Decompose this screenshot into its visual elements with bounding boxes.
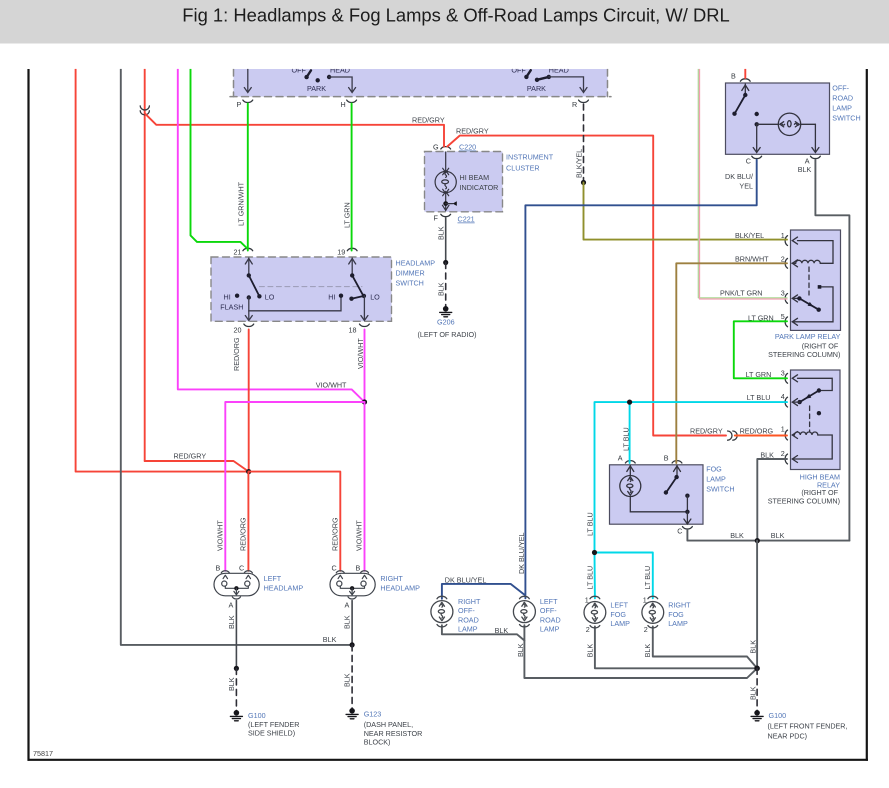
- svg-text:FOG: FOG: [610, 610, 626, 619]
- svg-text:BLK: BLK: [227, 677, 236, 691]
- pin B fog switch: [664, 454, 682, 464]
- headlamp switch section 1 OFF/PARK/HEAD: [244, 65, 355, 93]
- junction LT BLU at relay feed: [627, 400, 632, 405]
- label high beam relay: [768, 473, 840, 506]
- label hi beam indicator: [460, 173, 499, 192]
- pin G: [433, 143, 451, 152]
- ground G123 dash panel: [346, 708, 358, 719]
- svg-text:1: 1: [585, 595, 589, 604]
- svg-text:BLK: BLK: [798, 165, 812, 174]
- wire BLK left off-road lamp bottom: [523, 625, 525, 640]
- wire VIO/WHT to right headlamp pin B: [364, 402, 366, 571]
- wire BLK dashed to G100 left: [235, 668, 237, 710]
- fog lamp switch internals: [620, 466, 691, 525]
- svg-text:CLUSTER: CLUSTER: [506, 164, 540, 173]
- fog lamp switch box: [610, 465, 704, 524]
- pin A off-road switch: [805, 156, 821, 165]
- svg-text:G100: G100: [248, 711, 266, 720]
- off-road lamp switch internals: [732, 84, 819, 153]
- svg-text:BLK: BLK: [437, 226, 446, 240]
- svg-text:B: B: [356, 564, 361, 573]
- svg-text:RIGHT: RIGHT: [458, 597, 481, 606]
- svg-text:R: R: [572, 100, 577, 109]
- junction BLK grounds: [755, 538, 760, 543]
- svg-text:LEFT: LEFT: [610, 601, 628, 610]
- wire LT BLU to left fog lamp: [594, 553, 596, 599]
- svg-text:2: 2: [586, 625, 590, 634]
- junction RED/ORG distribution: [246, 469, 251, 474]
- svg-text:DK BLU/: DK BLU/: [725, 172, 753, 181]
- svg-text:B: B: [731, 72, 736, 81]
- svg-text:2: 2: [781, 255, 785, 264]
- dimmer switch right half HI/LO: [328, 258, 380, 321]
- pin C fog switch: [677, 527, 692, 536]
- svg-text:DK BLU/YEL: DK BLU/YEL: [445, 575, 487, 584]
- wire LT BLU high beam relay pin 4 net: [595, 402, 788, 552]
- svg-text:BLK: BLK: [343, 673, 352, 687]
- wire DK BLU/YEL off-road switch pin C to off-road lamps: [525, 160, 756, 599]
- wire RED/GRY from pin G to high beam relay: [447, 136, 726, 436]
- wire BLK/YEL dashed from pin R: [583, 104, 585, 183]
- svg-text:A: A: [345, 601, 350, 610]
- wire VIO/WHT dimmer pin 18 down: [364, 330, 366, 403]
- wire BLK off-road switch pin A down right side: [815, 160, 849, 541]
- label instrument cluster: [506, 153, 554, 173]
- svg-text:LAMP: LAMP: [540, 625, 560, 634]
- svg-text:BLK: BLK: [516, 643, 525, 657]
- svg-text:A: A: [229, 601, 234, 610]
- hi beam indicator lamp U-cluster: [435, 152, 457, 211]
- svg-text:FOG: FOG: [706, 465, 722, 474]
- instrument cluster box (dashed): [425, 152, 503, 212]
- wire LT GRN/WHT pin P to pin 21: [247, 104, 249, 251]
- svg-text:BLK: BLK: [495, 626, 509, 635]
- svg-text:INDICATOR: INDICATOR: [460, 183, 499, 192]
- wire RED stub to off-road switch pin B: [744, 69, 746, 78]
- svg-text:LT BLU: LT BLU: [586, 566, 595, 590]
- wire BLK right headlamp pin A to junction: [351, 601, 353, 645]
- wire BRN/WHT park relay pin 2 to fog switch pin B: [676, 263, 787, 463]
- svg-text:INSTRUMENT: INSTRUMENT: [506, 153, 554, 162]
- svg-text:LAMP: LAMP: [458, 625, 478, 634]
- svg-text:LAMP: LAMP: [832, 104, 852, 113]
- svg-text:STEERING COLUMN): STEERING COLUMN): [768, 350, 840, 359]
- left fog lamp symbol: [584, 596, 606, 628]
- svg-text:RIGHT: RIGHT: [380, 574, 403, 583]
- wire BLK fog switch pin C to junction: [687, 530, 849, 541]
- inline connector on RED wire near relay: [728, 431, 738, 440]
- svg-text:LAMP: LAMP: [668, 619, 688, 628]
- svg-text:BLK: BLK: [771, 531, 785, 540]
- wire BLK/YEL to park lamp relay pin 1: [584, 183, 788, 240]
- headlamp switch box (top, dashed): [230, 69, 611, 97]
- high beam relay pin numbers 3 4 1 2: [781, 369, 785, 459]
- svg-text:BLK: BLK: [749, 640, 758, 654]
- svg-text:OFF-: OFF-: [832, 84, 849, 93]
- svg-text:VIO/WHT: VIO/WHT: [216, 520, 225, 551]
- wire BLK dashed to G123: [351, 645, 353, 709]
- right fog lamp symbol: [642, 596, 664, 628]
- wire RED/ORG to right headlamp pin C: [249, 472, 341, 571]
- svg-text:2: 2: [644, 625, 648, 634]
- pin C off-road switch: [746, 156, 762, 165]
- svg-text:YEL: YEL: [739, 182, 753, 191]
- svg-text:BLK: BLK: [323, 635, 337, 644]
- park lamp relay internals: [792, 237, 833, 325]
- svg-text:LEFT: LEFT: [264, 574, 282, 583]
- svg-text:B: B: [216, 564, 221, 573]
- svg-text:LT GRN/WHT: LT GRN/WHT: [237, 181, 246, 226]
- label park lamp relay: [768, 332, 840, 359]
- pin R: [572, 100, 588, 109]
- wire RED/GRY left vertical feed 1: [76, 69, 246, 472]
- wire BLK left headlamp pin A to splice: [235, 601, 237, 669]
- wire LT BLU to right fog lamp: [595, 553, 653, 599]
- svg-text:BLK/YEL: BLK/YEL: [575, 149, 584, 178]
- svg-text:PNK/LT GRN: PNK/LT GRN: [720, 288, 762, 297]
- svg-text:VIO/WHT: VIO/WHT: [355, 520, 364, 551]
- svg-text:RED/ORG: RED/ORG: [331, 517, 340, 551]
- svg-text:RED/GRY: RED/GRY: [690, 426, 723, 435]
- junction BLK main ground: [754, 666, 760, 672]
- svg-text:SWITCH: SWITCH: [706, 485, 734, 494]
- svg-text:C220: C220: [459, 143, 476, 152]
- svg-text:(DASH PANEL,: (DASH PANEL,: [364, 720, 413, 729]
- park lamp relay pin numbers 1 2 3 5: [781, 231, 785, 321]
- pin 19: [337, 248, 357, 257]
- svg-text:DK BLU/YEL: DK BLU/YEL: [517, 532, 526, 574]
- right headlamp symbol: [330, 571, 375, 599]
- svg-text:NEAR PDC): NEAR PDC): [768, 732, 808, 741]
- label fog lamp switch: [706, 465, 734, 494]
- svg-text:BLK: BLK: [227, 615, 236, 629]
- svg-text:B: B: [664, 454, 669, 463]
- off-road lamp switch box: [726, 83, 830, 154]
- svg-text:BLK: BLK: [343, 615, 352, 629]
- svg-text:RIGHT: RIGHT: [668, 601, 691, 610]
- pin B off-road switch: [731, 72, 750, 82]
- svg-text:(LEFT OF RADIO): (LEFT OF RADIO): [418, 330, 477, 339]
- svg-text:C: C: [332, 564, 337, 573]
- wire DK BLU/YEL branch to right off-road lamp: [442, 584, 525, 599]
- svg-text:A: A: [618, 454, 623, 463]
- headlamp dimmer switch box (dashed): [211, 257, 392, 321]
- pin 20: [234, 324, 254, 334]
- svg-text:VIO/WHT: VIO/WHT: [316, 380, 347, 389]
- svg-text:BRN/WHT: BRN/WHT: [735, 254, 769, 263]
- svg-text:HEADLAMP: HEADLAMP: [380, 584, 420, 593]
- pin H: [341, 100, 357, 109]
- svg-text:G: G: [433, 143, 439, 152]
- svg-text:H: H: [341, 100, 346, 109]
- svg-text:5: 5: [781, 312, 785, 321]
- left off-road lamp symbol: [513, 596, 535, 627]
- junction VIO/WHT: [362, 399, 367, 404]
- svg-text:RED/GRY: RED/GRY: [174, 452, 207, 461]
- splice BLK/YEL: [581, 180, 586, 185]
- svg-text:1: 1: [781, 231, 785, 240]
- svg-text:ROAD: ROAD: [832, 94, 853, 103]
- svg-text:SIDE SHIELD): SIDE SHIELD): [248, 729, 295, 738]
- svg-text:SWITCH: SWITCH: [832, 114, 860, 123]
- svg-text:BLK/YEL: BLK/YEL: [735, 231, 764, 240]
- svg-text:BLK: BLK: [749, 686, 758, 700]
- svg-text:SWITCH: SWITCH: [396, 279, 424, 288]
- svg-text:BLK: BLK: [437, 282, 446, 296]
- high beam relay pin arcs: [785, 373, 787, 464]
- svg-text:ROAD: ROAD: [540, 615, 561, 624]
- svg-text:RED/ORG: RED/ORG: [232, 337, 241, 371]
- wire VIO/WHT to left headlamp pin B: [225, 402, 364, 571]
- svg-text:20: 20: [234, 326, 242, 335]
- svg-text:(LEFT FRONT FENDER,: (LEFT FRONT FENDER,: [768, 722, 848, 731]
- svg-text:G100: G100: [769, 711, 787, 720]
- svg-text:LT GRN: LT GRN: [343, 202, 352, 228]
- svg-text:3: 3: [781, 289, 785, 298]
- svg-text:LT BLU: LT BLU: [586, 512, 595, 536]
- svg-text:LAMP: LAMP: [706, 475, 726, 484]
- svg-text:C: C: [746, 157, 751, 166]
- svg-text:HI: HI: [328, 293, 335, 302]
- wire LT BLU branch to fog switch pin A: [629, 402, 631, 463]
- svg-text:LT BLU: LT BLU: [747, 393, 771, 402]
- pin 21: [234, 248, 253, 257]
- svg-text:F: F: [434, 214, 439, 223]
- wire BLK left vertical (right headlamp ground feed): [121, 69, 352, 645]
- splice left headlamp ground: [234, 666, 239, 671]
- wire BLK dashed to G206: [445, 263, 447, 307]
- wire BLK dashed to G100 right: [756, 668, 758, 710]
- park lamp relay box: [791, 230, 841, 330]
- splice cluster ground: [443, 260, 448, 265]
- wire RED/GRY branch to instrument cluster pin G: [145, 113, 444, 146]
- left headlamp symbol: [214, 571, 259, 599]
- svg-text:C: C: [239, 564, 244, 573]
- svg-text:BLOCK): BLOCK): [364, 737, 391, 746]
- svg-text:HI: HI: [224, 293, 231, 302]
- svg-text:1: 1: [643, 595, 647, 604]
- headlamp switch section 2 OFF/PARK/HEAD: [511, 65, 587, 93]
- svg-text:RED/ORG: RED/ORG: [740, 426, 774, 435]
- wire RED/ORG to left headlamp pin C: [247, 472, 249, 571]
- svg-text:FOG: FOG: [668, 610, 684, 619]
- ground G100 left fender: [230, 710, 242, 721]
- svg-text:21: 21: [234, 248, 242, 257]
- svg-text:DIMMER: DIMMER: [396, 269, 425, 278]
- right off-road lamp symbol: [431, 596, 453, 627]
- svg-text:3: 3: [781, 369, 785, 378]
- svg-text:BLK: BLK: [730, 531, 744, 540]
- svg-text:LO: LO: [265, 293, 275, 302]
- high beam relay box: [791, 370, 841, 470]
- svg-text:LO: LO: [370, 293, 380, 302]
- ground G100 front fender: [751, 710, 763, 721]
- svg-text:STEERING COLUMN): STEERING COLUMN): [768, 497, 840, 506]
- svg-text:G123: G123: [364, 710, 382, 719]
- wire LT GRN park relay pin 5 to high beam relay pin 3: [734, 321, 787, 378]
- svg-text:1: 1: [781, 425, 785, 434]
- wire BLK right fog lamp ground: [653, 627, 757, 669]
- wire BLK left fog lamp ground: [595, 627, 757, 669]
- svg-text:Fig 1: Headlamps & Fog Lamps &: Fig 1: Headlamps & Fog Lamps & Off-Road …: [182, 5, 730, 26]
- svg-text:FLASH: FLASH: [220, 303, 243, 312]
- svg-text:19: 19: [337, 248, 345, 257]
- svg-text:LAMP: LAMP: [610, 619, 630, 628]
- svg-text:BLK: BLK: [760, 450, 774, 459]
- pin P: [237, 100, 253, 109]
- wire BLK instrument cluster pin F down: [445, 218, 447, 263]
- wire RED/ORG into high beam relay pin 1: [735, 435, 787, 437]
- svg-text:G206: G206: [437, 318, 455, 327]
- wire VIO/WHT left vertical feed: [178, 69, 365, 402]
- svg-text:18: 18: [349, 326, 357, 335]
- svg-text:75817: 75817: [33, 749, 53, 758]
- svg-text:BLK: BLK: [643, 644, 652, 658]
- svg-text:PARK: PARK: [307, 84, 326, 93]
- svg-text:VIO/WHT: VIO/WHT: [356, 338, 365, 369]
- svg-text:LEFT: LEFT: [540, 597, 558, 606]
- high beam relay internals: [792, 375, 832, 463]
- svg-text:PARK: PARK: [527, 84, 546, 93]
- junction LT BLU fog split: [592, 550, 597, 555]
- pin A fog switch: [618, 454, 635, 464]
- svg-text:LT BLU: LT BLU: [621, 427, 630, 451]
- ground G206: [440, 306, 452, 317]
- svg-text:HEADLAMP: HEADLAMP: [264, 584, 304, 593]
- svg-text:RED/GRY: RED/GRY: [456, 126, 489, 135]
- svg-text:OFF-: OFF-: [458, 606, 475, 615]
- dimmer switch left half HI/LO/FLASH: [220, 258, 341, 321]
- wire LT GRN/WHT left vertical feed: [191, 69, 248, 249]
- svg-text:2: 2: [781, 449, 785, 458]
- svg-text:C: C: [677, 527, 682, 536]
- svg-text:RED/GRY: RED/GRY: [412, 116, 445, 125]
- wire PNK/LT GRN vertical feed to park lamp relay pin 3 (two-tone): [698, 69, 787, 299]
- svg-text:LT GRN: LT GRN: [746, 370, 772, 379]
- svg-text:RED/ORG: RED/ORG: [239, 517, 248, 551]
- svg-text:LT BLU: LT BLU: [643, 566, 652, 590]
- svg-text:P: P: [237, 100, 242, 109]
- wire RED/ORG dimmer pin 20 down: [248, 330, 250, 472]
- wire BLK off-road lamps ground: [442, 625, 757, 678]
- wire RED/GRY left vertical feed 2 with inline connector: [140, 69, 249, 472]
- svg-text:LT GRN: LT GRN: [748, 314, 774, 323]
- svg-text:PARK LAMP RELAY: PARK LAMP RELAY: [775, 332, 841, 341]
- pin 18: [349, 324, 370, 334]
- park lamp relay pin arcs: [785, 236, 787, 327]
- svg-text:HI BEAM: HI BEAM: [460, 173, 490, 182]
- wire BLK junction down to G100 junction: [756, 541, 758, 669]
- pin F: [434, 214, 451, 223]
- svg-text:4: 4: [781, 392, 785, 401]
- svg-text:BLK: BLK: [586, 644, 595, 658]
- label headlamp dimmer switch: [396, 259, 436, 288]
- svg-text:A: A: [805, 157, 810, 166]
- svg-text:OFF-: OFF-: [540, 606, 557, 615]
- svg-text:ROAD: ROAD: [458, 615, 479, 624]
- wire LT GRN pin H to pin 19: [351, 104, 353, 251]
- svg-text:HEADLAMP: HEADLAMP: [396, 259, 436, 268]
- junction right headlamp ground: [350, 642, 355, 647]
- svg-text:C221: C221: [458, 215, 475, 224]
- wire BLK high beam relay pin 2: [757, 459, 787, 541]
- label off-road lamp switch: [832, 84, 860, 123]
